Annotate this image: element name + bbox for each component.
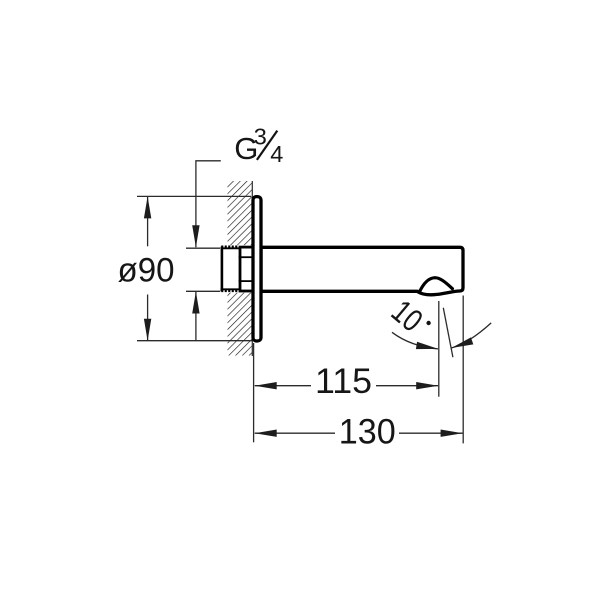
svg-text:4: 4 xyxy=(270,141,283,167)
svg-text:3: 3 xyxy=(254,124,267,150)
svg-text:130: 130 xyxy=(339,413,396,452)
svg-text:ø90: ø90 xyxy=(118,251,175,289)
svg-text:115: 115 xyxy=(315,362,372,401)
